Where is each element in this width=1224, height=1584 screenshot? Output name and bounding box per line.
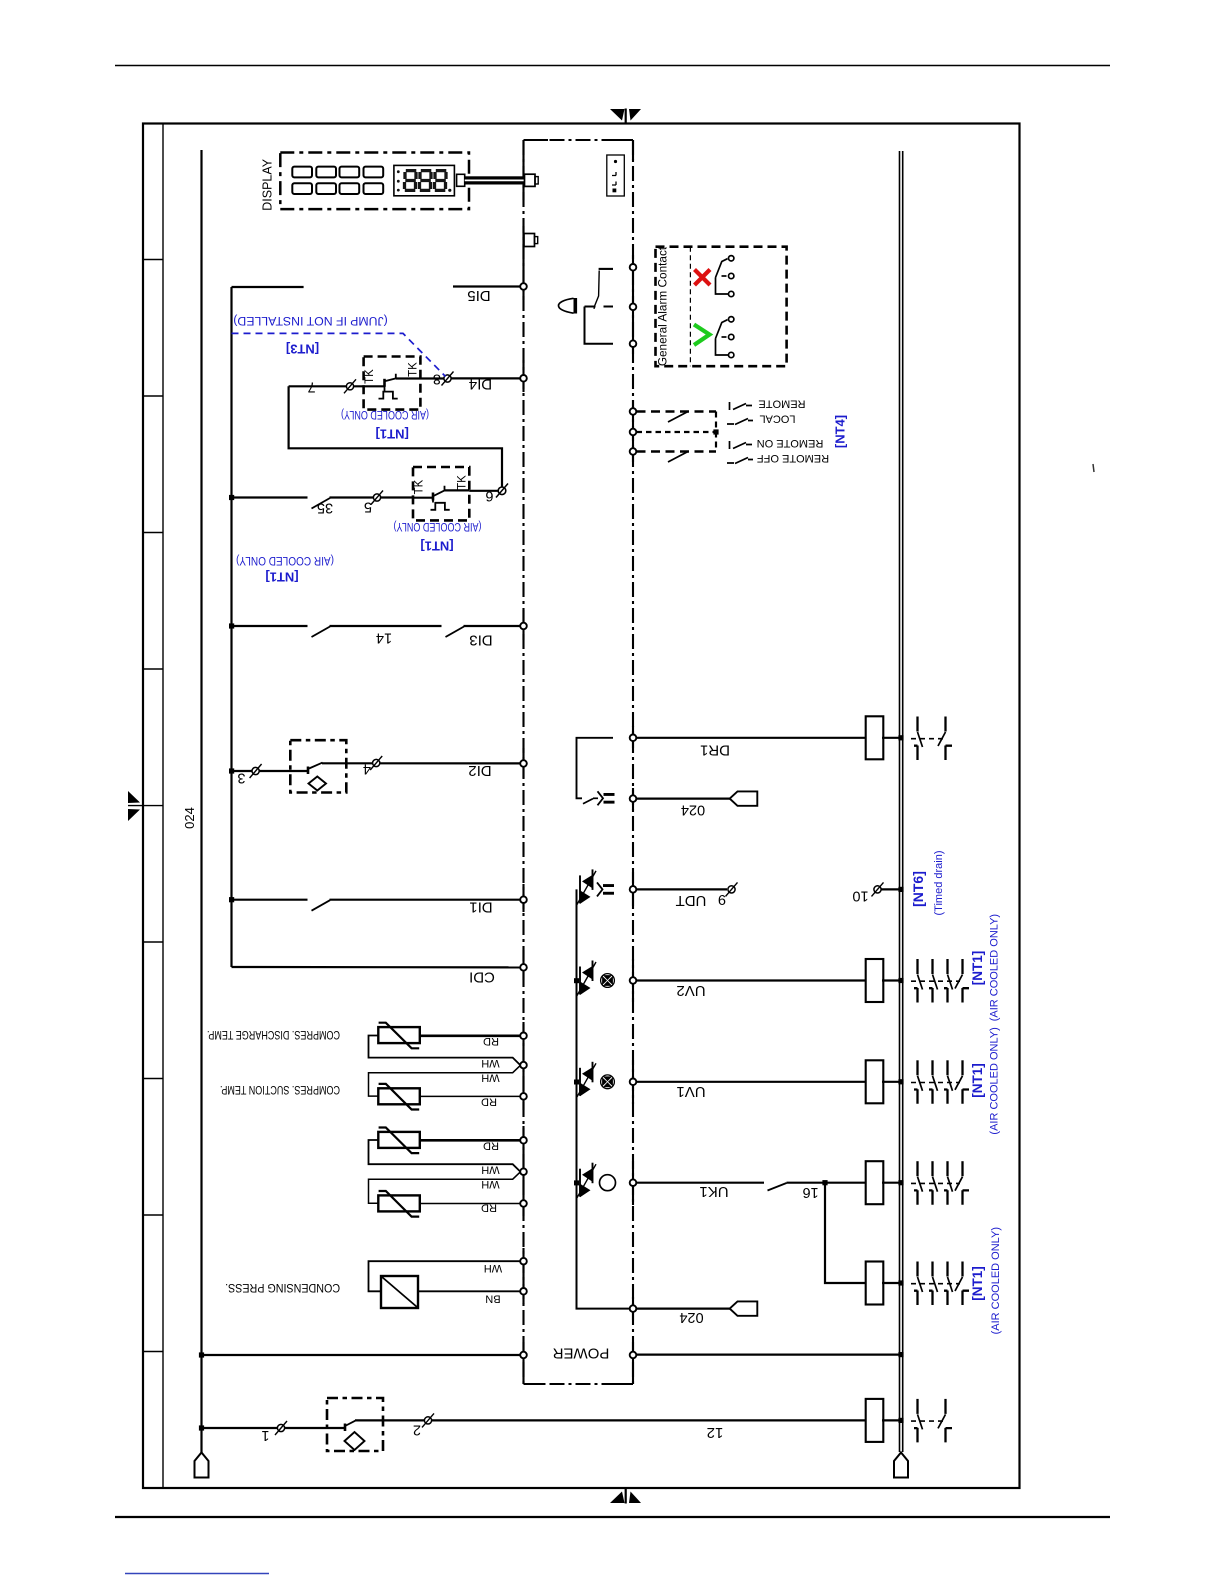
- controller board outline left bus: [522, 140, 524, 1384]
- svg-text:REMOTE: REMOTE: [758, 398, 805, 410]
- wire RD c2 lower: [420, 1203, 520, 1205]
- node RD c2 upper: [520, 1137, 527, 1144]
- svg-text:16: 16: [803, 1184, 819, 1200]
- contact DI3 b: [446, 627, 465, 638]
- remote row1 contact arm: [668, 412, 688, 423]
- output rail bottom flag: [894, 1453, 908, 1478]
- svg-text:10: 10: [852, 888, 868, 904]
- wire 024 upper: [637, 797, 731, 799]
- timed drain bracket: [577, 738, 614, 799]
- node alarm 2: [630, 304, 637, 311]
- relay coil DR1: [866, 716, 884, 759]
- svg-text:14: 14: [376, 629, 392, 645]
- wire 16 branch down: [825, 1183, 867, 1283]
- UV1 output contacts: [914, 1060, 923, 1104]
- timed drain dash: [593, 797, 598, 799]
- alarm buzzer: [574, 298, 578, 314]
- remote switch glyph 3: [730, 441, 753, 449]
- tag 024 upper: [730, 791, 758, 805]
- pressure transducer: [381, 1276, 418, 1308]
- bottom centre fold mark: [610, 1488, 641, 1504]
- svg-text:12: 12: [707, 1424, 724, 1441]
- remote switch glyph 2: [727, 419, 753, 425]
- node RD discharge: [520, 1033, 527, 1040]
- svg-text:WH: WH: [481, 1057, 499, 1069]
- svg-text:REMOTE ON: REMOTE ON: [757, 437, 824, 449]
- frame zone dividers: [128, 260, 163, 1352]
- wire DI5 left stub: [232, 286, 304, 288]
- note NT3 jumper dashed wire: [232, 333, 446, 376]
- wire WH press loop: [369, 1261, 521, 1291]
- flow switch bottom contact: [344, 1424, 347, 1432]
- wire WH c2 lower loop: [369, 1172, 521, 1203]
- svg-text:[NT1]: [NT1]: [970, 1063, 985, 1098]
- svg-text:[NT3]: [NT3]: [286, 342, 319, 357]
- svg-text:(AIR COOLED ONLY): (AIR COOLED ONLY): [393, 520, 481, 534]
- flow switch DI2 paddle: [309, 777, 327, 791]
- node DI1: [520, 896, 527, 903]
- svg-text:WH: WH: [481, 1178, 499, 1190]
- svg-text:024: 024: [182, 807, 197, 829]
- svg-text:024: 024: [681, 802, 705, 818]
- General Alarm Contact divider: [689, 247, 691, 367]
- wire DI1: [232, 899, 308, 901]
- seven segment dots: [397, 170, 452, 192]
- node CDI: [520, 964, 527, 971]
- svg-text:9: 9: [718, 891, 726, 907]
- terminal 3 circle: [252, 767, 259, 774]
- rail junction dots: [199, 495, 234, 1431]
- svg-text:[NT1]: [NT1]: [376, 426, 409, 441]
- aux output contacts: [914, 1262, 923, 1306]
- wire 1 to flow box: [285, 1427, 346, 1429]
- node WH shared upper: [520, 1062, 527, 1069]
- thermal contact TK1 box: [364, 357, 421, 410]
- bus solid overdraws: [524, 140, 634, 1384]
- terminal 8 circle: [444, 375, 451, 382]
- svg-text:(AIR COOLED ONLY): (AIR COOLED ONLY): [988, 914, 1000, 1021]
- node remote 2: [630, 429, 637, 436]
- svg-text:POWER: POWER: [553, 1345, 610, 1362]
- terminal 9 circle: [728, 886, 735, 893]
- TK1 thermal element: [379, 387, 398, 399]
- flow switch DI2 contact: [307, 767, 310, 775]
- svg-text:1: 1: [261, 1427, 269, 1443]
- wire UV1: [637, 1081, 868, 1083]
- svg-text:CDI: CDI: [469, 969, 495, 986]
- node DI4: [520, 375, 527, 382]
- svg-text:DISPLAY: DISPLAY: [261, 158, 275, 211]
- triac chain junction dots: [574, 978, 579, 1185]
- wire 3 to flow box: [259, 770, 308, 772]
- wire WH c2 upper loop: [369, 1140, 521, 1172]
- wire 6 to TK2: [469, 490, 498, 492]
- display ribbon cable: [465, 176, 525, 184]
- svg-text:DI5: DI5: [467, 287, 490, 304]
- node alarm 3: [630, 340, 637, 347]
- fan icon UV2: [601, 974, 615, 988]
- svg-text:UK1: UK1: [699, 1183, 728, 1200]
- node alarm 1: [630, 264, 637, 271]
- alarm relay top lead: [599, 268, 613, 270]
- remote switch glyph 1: [730, 402, 753, 410]
- svg-text:DI4: DI4: [469, 376, 492, 393]
- thermal contact TK2 box: [413, 467, 469, 520]
- terminal 7 circle: [346, 383, 353, 390]
- svg-text:DR1: DR1: [700, 742, 730, 759]
- svg-text:[NT1]: [NT1]: [970, 1266, 985, 1301]
- remote row3 contact arm: [668, 452, 688, 463]
- relay coil UV2: [866, 959, 884, 1002]
- contact DI1: [312, 900, 331, 911]
- wire UV2: [637, 979, 868, 981]
- svg-text:RD: RD: [483, 1035, 499, 1047]
- wire DI4: [452, 377, 521, 379]
- triac UDT: [577, 869, 597, 905]
- flow switch bottom paddle: [345, 1432, 365, 1450]
- svg-text:DI2: DI2: [468, 762, 491, 779]
- top centre fold mark: [610, 109, 641, 125]
- remote row2 dashed wire: [637, 431, 717, 433]
- drawing frame outer border: [143, 124, 1020, 1489]
- alarm relay coil: [585, 307, 614, 344]
- svg-text:COMPRES. SUCTION TEMP.: COMPRES. SUCTION TEMP.: [220, 1083, 340, 1097]
- svg-text:[NT6]: [NT6]: [910, 871, 926, 907]
- display cable connector left: [457, 174, 465, 186]
- svg-text:UV2: UV2: [676, 982, 705, 999]
- svg-text:(AIR COOLED ONLY): (AIR COOLED ONLY): [990, 1227, 1002, 1334]
- contact 16: [768, 1183, 787, 1191]
- svg-text:[NT4]: [NT4]: [833, 415, 848, 448]
- alarm red X: [695, 270, 711, 286]
- svg-text:(Timed drain): (Timed drain): [933, 851, 945, 916]
- General Alarm Contact box: [656, 247, 787, 367]
- wire aux coil to rail: [882, 1282, 902, 1284]
- connector J4 top right: [607, 155, 625, 196]
- thermistor circuit2 upper: [378, 1132, 420, 1148]
- svg-text:35: 35: [317, 500, 333, 516]
- compressor icon UK1: [600, 1175, 616, 1191]
- remote vertical dashed link: [715, 412, 717, 452]
- svg-text:3: 3: [237, 770, 245, 786]
- relay coil 12: [866, 1399, 884, 1442]
- wire DI2 left: [232, 770, 253, 772]
- svg-text:WH: WH: [484, 1262, 502, 1274]
- svg-text:WH: WH: [481, 1164, 499, 1176]
- svg-text:DI1: DI1: [469, 899, 492, 916]
- node RD suction: [520, 1093, 527, 1100]
- relay coil UV1: [866, 1060, 884, 1103]
- wire UDT right stub: [881, 888, 902, 890]
- UK1 output contacts: [914, 1161, 923, 1205]
- node 024 lower: [630, 1305, 637, 1312]
- terminal 4 circle: [373, 759, 380, 766]
- svg-text:LOCAL: LOCAL: [759, 413, 795, 425]
- terminal 1 circle: [277, 1424, 284, 1431]
- remote link junction dot: [713, 429, 718, 434]
- svg-text:TK: TK: [364, 369, 376, 384]
- output rail vertical double line: [899, 151, 901, 1452]
- triac UV2: [577, 961, 597, 997]
- svg-text:COMPRES. DISCHARGE TEMP.: COMPRES. DISCHARGE TEMP.: [207, 1028, 340, 1042]
- output rail junction dots: [822, 735, 903, 1423]
- wire UK1 coil to rail: [882, 1182, 902, 1184]
- node remote 3: [630, 448, 637, 455]
- svg-text:RD: RD: [481, 1096, 497, 1108]
- node UV1: [630, 1079, 637, 1086]
- TK1 contact: [385, 374, 396, 382]
- terminal 5 circle: [373, 494, 380, 501]
- thermistor circuit2 lower: [378, 1195, 420, 1211]
- wire BN press: [418, 1290, 520, 1292]
- controller board outline top edge: [524, 139, 634, 141]
- wire DI3: [232, 625, 308, 627]
- remote row3 dashed wire: [637, 450, 717, 453]
- wire row 35: [330, 496, 374, 498]
- net 024 left rail: [200, 150, 202, 1453]
- wire row 1-2 left: [202, 1427, 278, 1429]
- drawing frame inner left line: [162, 124, 164, 1489]
- node power right: [630, 1352, 637, 1359]
- 12 output contacts: [914, 1399, 923, 1443]
- display keypad buttons: [292, 167, 383, 194]
- svg-text:BN: BN: [485, 1293, 500, 1305]
- wire 024 lower: [637, 1307, 731, 1309]
- DISPLAY dash-dot box: [280, 153, 469, 210]
- display cable connector right: [525, 174, 536, 186]
- wire DR1 coil to rail: [882, 737, 902, 739]
- wire RD suction: [420, 1095, 520, 1097]
- controller board outline right bus: [632, 140, 634, 1384]
- svg-text:(AIR COOLED ONLY): (AIR COOLED ONLY): [988, 1027, 1000, 1134]
- node UK1: [630, 1179, 637, 1186]
- wire DI5: [453, 285, 520, 287]
- triac chain rail: [577, 889, 631, 1308]
- page footer rule: [115, 1516, 1110, 1518]
- node WH press: [520, 1258, 527, 1265]
- node WH shared lower: [520, 1168, 527, 1175]
- wire TK1 exit left: [289, 385, 385, 387]
- terminal 2 circle: [424, 1417, 431, 1424]
- node UV2: [630, 977, 637, 984]
- alarm relay armature stubs: [585, 306, 614, 308]
- svg-text:7: 7: [308, 379, 316, 395]
- svg-text:TK: TK: [408, 362, 420, 377]
- stray apostrophe mark: [1093, 464, 1094, 472]
- wire 2 to coil 12: [432, 1419, 868, 1421]
- svg-text:[NT1]: [NT1]: [970, 951, 985, 986]
- svg-text:REMOTE OFF: REMOTE OFF: [757, 452, 829, 464]
- svg-text:TK: TK: [457, 475, 469, 490]
- wire DI2 right: [322, 762, 373, 764]
- wire UDT left: [637, 888, 728, 890]
- controller board outline bottom edge: [524, 1383, 634, 1385]
- alarm SPDT contact upper: [716, 256, 734, 297]
- node UDT: [630, 886, 637, 893]
- flow switch DI2 box: [290, 740, 346, 792]
- wire row 1-2 right: [355, 1419, 425, 1421]
- wire POWER: [202, 1354, 521, 1356]
- node POWER left: [520, 1352, 527, 1359]
- fan icon UV1: [601, 1075, 615, 1089]
- svg-text:(AIR COOLED ONLY): (AIR COOLED ONLY): [236, 554, 334, 568]
- TK2 thermal element: [431, 501, 450, 510]
- svg-text:[NT1]: [NT1]: [420, 539, 453, 554]
- TK2 contact: [433, 486, 445, 497]
- UV2 output contacts: [914, 959, 923, 1003]
- terminal 6 circle: [498, 487, 506, 495]
- wire WH discharge loop: [369, 1036, 521, 1066]
- wire CDI: [232, 966, 521, 969]
- triac UK1: [577, 1163, 597, 1199]
- relay coil aux: [866, 1262, 884, 1305]
- seven segment display bezel: [394, 165, 455, 195]
- svg-text:General Alarm Contact: General Alarm Contact: [656, 246, 670, 366]
- wire UV1 coil to rail: [882, 1081, 902, 1083]
- relay coil UK1: [866, 1161, 884, 1204]
- node 024 upper: [630, 795, 637, 802]
- svg-text:(AIR COOLED ONLY): (AIR COOLED ONLY): [341, 408, 429, 422]
- svg-text:[NT1]: [NT1]: [265, 570, 298, 585]
- wire TK1 to TK2 loop: [289, 386, 502, 487]
- wire UV2 coil to rail: [882, 979, 902, 981]
- wire 8 to TK1: [396, 377, 444, 379]
- wire WH suction loop: [369, 1065, 521, 1096]
- alarm relay contact arm: [594, 271, 599, 309]
- svg-text:RD: RD: [481, 1202, 497, 1214]
- wire UK1 left: [637, 1182, 765, 1184]
- triac UV1: [577, 1062, 597, 1098]
- svg-text:TK: TK: [414, 479, 426, 494]
- wire power right: [637, 1353, 902, 1355]
- node DI2: [520, 760, 527, 767]
- svg-text:024: 024: [679, 1309, 703, 1325]
- contact DI3 a: [312, 627, 331, 638]
- thermistor suction temp: [378, 1088, 420, 1104]
- svg-text:WH: WH: [481, 1072, 499, 1084]
- svg-text:UV1: UV1: [676, 1083, 705, 1100]
- node RD c2 lower: [520, 1200, 527, 1207]
- remote row1 dashed wire: [637, 410, 717, 413]
- node remote 1: [630, 408, 637, 415]
- node BN press: [520, 1288, 527, 1295]
- timed drain valve icon: [598, 791, 615, 805]
- svg-text:4: 4: [363, 761, 371, 777]
- left rail bottom flag: [195, 1453, 209, 1478]
- contact 35: [312, 498, 331, 509]
- node DI5: [520, 283, 527, 290]
- DI collector rail: [230, 287, 232, 967]
- alarm SPDT contact lower: [716, 317, 734, 358]
- page header rule: [115, 65, 1110, 67]
- tag 024 lower: [730, 1301, 758, 1315]
- wire RD discharge: [420, 1034, 520, 1037]
- svg-text:(JUMP IF NOT INSTALLED): (JUMP IF NOT INSTALLED): [233, 314, 387, 328]
- drain icon UDT: [597, 882, 614, 896]
- wire DR1: [637, 737, 868, 739]
- wire RD c2 upper: [420, 1139, 520, 1142]
- thermistor discharge temp: [378, 1027, 420, 1043]
- node DR1: [630, 735, 637, 742]
- flow switch bottom box: [327, 1398, 383, 1451]
- svg-text:RD: RD: [483, 1140, 499, 1152]
- DR1 output contacts: [914, 717, 923, 761]
- connector stub on left bus: [524, 234, 535, 247]
- wire TK2 exit left row 35: [413, 497, 433, 499]
- footer link underline: [125, 1573, 269, 1575]
- svg-text:CONDENSING PRESS.: CONDENSING PRESS.: [225, 1281, 340, 1295]
- terminal 10 circle: [874, 886, 881, 893]
- svg-text:2: 2: [413, 1422, 421, 1438]
- remote switch glyph 4: [727, 458, 753, 464]
- node DI3: [520, 623, 527, 630]
- wire UK1 right: [787, 1182, 868, 1184]
- svg-text:5: 5: [364, 499, 372, 515]
- alarm green check: [694, 325, 710, 346]
- svg-text:UDT: UDT: [676, 892, 707, 909]
- timed drain contact arm: [583, 799, 593, 804]
- left centre fold mark: [128, 791, 140, 821]
- svg-text:DI3: DI3: [469, 631, 492, 648]
- seven segment digits 888: [405, 171, 447, 191]
